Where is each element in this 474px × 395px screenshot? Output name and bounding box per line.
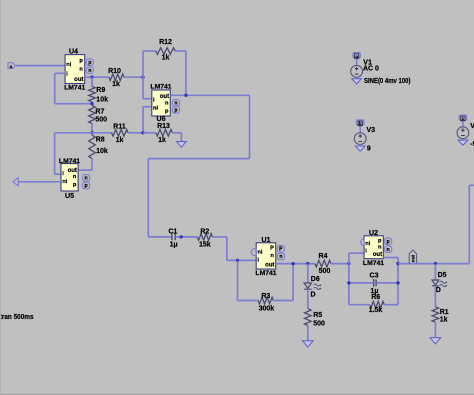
resistor R5 xyxy=(305,309,312,326)
svg-text:LM741: LM741 xyxy=(64,84,85,91)
node D6 branch xyxy=(306,262,309,265)
wire xyxy=(176,236,198,238)
wire xyxy=(148,158,249,160)
svg-text:n: n xyxy=(85,176,88,182)
capacitor C1 xyxy=(171,234,173,241)
wire xyxy=(180,133,182,142)
svg-text:V3: V3 xyxy=(367,127,376,134)
svg-text:LM741: LM741 xyxy=(59,158,80,165)
wire xyxy=(54,133,56,174)
wire xyxy=(55,103,92,105)
pin box n (U5) xyxy=(83,175,90,182)
I/O port out xyxy=(409,250,416,264)
wire xyxy=(185,51,187,95)
node R9-R7 xyxy=(90,102,93,105)
pin box n (U4) xyxy=(86,67,93,74)
svg-text:U6: U6 xyxy=(157,116,166,123)
op-amp U1 xyxy=(256,243,276,269)
wire xyxy=(55,173,61,175)
svg-text:n: n xyxy=(279,254,282,260)
node C3 right xyxy=(396,281,399,284)
svg-text:p: p xyxy=(73,182,77,188)
wire xyxy=(170,94,249,96)
diode D5 xyxy=(432,280,439,285)
resistor R13 xyxy=(156,130,173,137)
voltage source V2 xyxy=(459,115,467,122)
node R2-R3 xyxy=(236,259,239,262)
wire xyxy=(143,132,156,134)
svg-text:p: p xyxy=(88,60,91,66)
ground (R13) xyxy=(177,142,187,148)
svg-text:n: n xyxy=(79,66,83,72)
svg-text:1k: 1k xyxy=(162,54,170,61)
op-amp U6 xyxy=(152,90,171,116)
node R11-R13 xyxy=(141,131,144,134)
svg-text:R2: R2 xyxy=(200,229,209,236)
svg-text:1k: 1k xyxy=(112,81,120,88)
svg-text:n: n xyxy=(88,68,91,74)
svg-text:R8: R8 xyxy=(96,136,105,143)
node U2.out xyxy=(396,262,399,265)
ground (R1) xyxy=(430,338,441,344)
node R4-U2.i xyxy=(347,262,350,265)
svg-text:D: D xyxy=(311,291,316,298)
svg-text:D6: D6 xyxy=(311,276,320,283)
pin box P (U1) xyxy=(277,245,284,252)
ground (R5) xyxy=(303,341,314,347)
resistor R11 xyxy=(112,130,129,137)
svg-text:.tran 500ms: .tran 500ms xyxy=(0,314,34,321)
wire xyxy=(249,95,251,158)
svg-text:D: D xyxy=(436,287,441,294)
svg-text:R5: R5 xyxy=(313,312,322,319)
svg-text:b: b xyxy=(359,121,362,126)
wire xyxy=(434,286,436,307)
LED arrows (D6) xyxy=(314,284,320,286)
svg-text:500: 500 xyxy=(95,117,107,124)
svg-text:p: p xyxy=(387,239,390,245)
svg-text:1k: 1k xyxy=(440,317,448,324)
svg-text:P: P xyxy=(279,246,283,252)
op-amp U5 xyxy=(61,164,78,191)
wire xyxy=(238,300,259,302)
svg-text:p: p xyxy=(165,109,169,115)
svg-text:U1: U1 xyxy=(262,237,271,244)
svg-text:n: n xyxy=(270,253,274,259)
wire xyxy=(142,107,144,133)
wire xyxy=(54,73,56,103)
pin box p (U5) xyxy=(83,182,90,189)
window edge shading left xyxy=(0,0,1,395)
svg-text:out: out xyxy=(410,254,416,262)
wire xyxy=(276,263,315,265)
wire xyxy=(348,253,350,305)
resistor R2 xyxy=(197,234,212,241)
svg-text:out: out xyxy=(265,262,274,268)
voltage source V3 xyxy=(356,120,364,127)
svg-text:1k: 1k xyxy=(158,137,166,144)
wire xyxy=(172,132,181,134)
pin box p (U6) xyxy=(172,107,179,114)
svg-text:U2: U2 xyxy=(369,230,378,237)
svg-text:300k: 300k xyxy=(259,306,275,313)
wire xyxy=(307,289,309,309)
svg-text:n: n xyxy=(73,174,77,180)
svg-text:ni: ni xyxy=(153,106,158,112)
svg-text:U5: U5 xyxy=(65,193,74,200)
svg-text:10k: 10k xyxy=(96,96,108,103)
svg-text:out: out xyxy=(74,77,83,83)
wire xyxy=(468,185,470,263)
svg-text:P: P xyxy=(270,246,274,252)
I/O port a xyxy=(8,63,16,69)
svg-text:D5: D5 xyxy=(438,272,447,279)
resistor R10 xyxy=(109,74,124,81)
svg-text:C3: C3 xyxy=(370,273,379,280)
svg-text:15k: 15k xyxy=(199,241,211,248)
node U6.out xyxy=(184,94,187,97)
svg-text:p: p xyxy=(85,183,88,189)
svg-text:500: 500 xyxy=(313,321,325,328)
wire xyxy=(376,282,398,284)
resistor R9 xyxy=(89,87,96,102)
node C3 left xyxy=(347,281,350,284)
svg-text:1k: 1k xyxy=(116,137,124,144)
wire xyxy=(147,159,149,237)
I/O port (U2 ni) xyxy=(360,239,364,245)
wire xyxy=(55,132,92,134)
wire xyxy=(91,77,93,86)
svg-text:R1: R1 xyxy=(440,309,449,316)
wire xyxy=(307,264,309,283)
wire xyxy=(434,264,436,280)
wire xyxy=(349,252,364,254)
svg-text:V2: V2 xyxy=(470,123,474,130)
resistor R8 xyxy=(89,135,96,158)
svg-text:R10: R10 xyxy=(108,68,121,75)
svg-text:R4: R4 xyxy=(319,253,328,260)
svg-text:LM741: LM741 xyxy=(363,260,384,267)
svg-text:n: n xyxy=(165,101,169,107)
resistor R3 xyxy=(258,297,273,304)
pin box p (U2) xyxy=(385,238,392,245)
svg-text:-9: -9 xyxy=(470,141,474,148)
svg-text:R13: R13 xyxy=(157,123,170,130)
pin box n (U2) xyxy=(385,246,392,253)
svg-text:p: p xyxy=(79,58,83,64)
svg-text:LM741: LM741 xyxy=(150,84,171,91)
diode D6 xyxy=(304,283,311,288)
wire xyxy=(397,258,399,305)
wire xyxy=(78,169,92,171)
wire xyxy=(143,98,152,100)
svg-text:C1: C1 xyxy=(168,229,177,236)
svg-text:out: out xyxy=(68,168,77,174)
wire xyxy=(143,106,152,108)
wire xyxy=(16,65,66,67)
svg-text:R6: R6 xyxy=(371,294,380,301)
wire xyxy=(124,76,143,78)
pin box n (U1) xyxy=(277,253,284,260)
wire xyxy=(91,158,93,170)
wire xyxy=(92,132,112,134)
wire xyxy=(91,102,93,104)
node R7-R8 xyxy=(90,131,93,134)
svg-text:ni: ni xyxy=(62,179,67,185)
wire xyxy=(175,50,186,52)
svg-text:a: a xyxy=(10,65,13,70)
wire xyxy=(128,132,143,134)
svg-text:R9: R9 xyxy=(96,87,105,94)
capacitor C3 xyxy=(373,279,375,287)
voltage source V1 xyxy=(353,53,361,60)
window edge shading bottom xyxy=(0,394,474,395)
wire xyxy=(383,257,398,259)
svg-text:10k: 10k xyxy=(96,148,108,155)
wire xyxy=(398,263,469,265)
wire xyxy=(55,72,65,74)
wire xyxy=(349,304,370,306)
svg-text:SINE(0 4mv 100): SINE(0 4mv 100) xyxy=(364,78,411,85)
svg-text:500: 500 xyxy=(319,268,331,275)
svg-text:a: a xyxy=(355,54,358,59)
wire xyxy=(85,76,109,78)
svg-text:R12: R12 xyxy=(159,39,172,46)
wire xyxy=(91,124,93,133)
svg-text:p: p xyxy=(378,238,382,244)
svg-text:1.5k: 1.5k xyxy=(369,307,383,314)
LED arrows (D5) xyxy=(440,281,446,283)
svg-text:p: p xyxy=(174,108,177,114)
resistor R6 xyxy=(370,301,385,308)
svg-text:9: 9 xyxy=(367,145,371,152)
wire xyxy=(212,236,226,238)
resistor R7 xyxy=(89,106,96,124)
svg-text:LM741: LM741 xyxy=(255,270,276,277)
wire xyxy=(237,260,239,300)
wire xyxy=(384,304,398,306)
svg-text:n: n xyxy=(378,244,382,250)
node C1-R2 xyxy=(180,235,183,238)
svg-text:c: c xyxy=(462,116,465,121)
svg-text:ni: ni xyxy=(257,249,262,255)
wire xyxy=(273,300,293,302)
wire xyxy=(469,184,474,186)
svg-text:R11: R11 xyxy=(113,123,126,130)
svg-text:ni: ni xyxy=(66,62,71,68)
wire xyxy=(143,50,156,52)
svg-text:out: out xyxy=(160,94,169,100)
node D5 branch xyxy=(434,262,437,265)
resistor R4 xyxy=(315,260,331,267)
wire xyxy=(349,282,374,284)
wire xyxy=(292,264,294,301)
svg-text:AC 0: AC 0 xyxy=(363,65,379,72)
pin box p (U4) xyxy=(86,59,93,66)
wire xyxy=(227,259,256,261)
svg-text:ni: ni xyxy=(365,241,370,247)
svg-text:U4: U4 xyxy=(69,49,78,56)
svg-text:n: n xyxy=(174,101,177,107)
I/O port (U5 ni) xyxy=(13,178,18,186)
resistor R1 xyxy=(432,307,439,322)
svg-text:1µ: 1µ xyxy=(170,241,178,248)
op-amp U2 xyxy=(364,236,383,259)
pin box n (U6) xyxy=(172,100,179,107)
I/O port (U1 ni) xyxy=(251,249,256,256)
wire xyxy=(331,263,349,265)
svg-text:R3: R3 xyxy=(261,293,270,300)
wire xyxy=(307,325,309,340)
svg-text:n: n xyxy=(387,247,390,253)
wire xyxy=(226,237,228,261)
node R10-R12 xyxy=(141,76,144,79)
svg-text:R7: R7 xyxy=(95,108,104,115)
wire xyxy=(148,236,171,238)
wire xyxy=(18,181,61,183)
op-amp U4 xyxy=(65,55,85,84)
node U1.out-R3 xyxy=(291,262,294,265)
wire xyxy=(142,51,144,99)
svg-text:out: out xyxy=(373,252,382,258)
node U4.out xyxy=(90,76,93,79)
wire xyxy=(434,322,436,338)
resistor R12 xyxy=(156,48,175,55)
